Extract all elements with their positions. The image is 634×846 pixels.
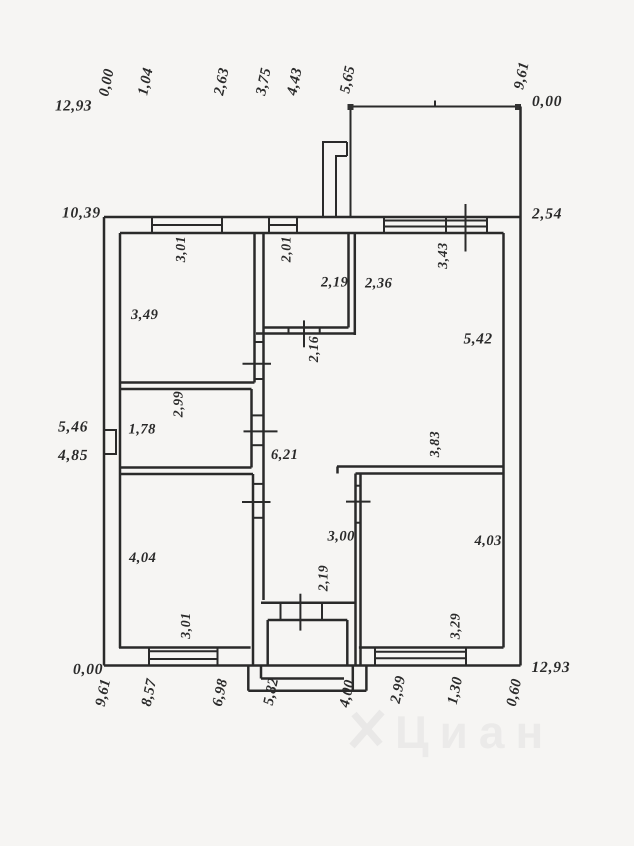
- svg-text:6,21: 6,21: [271, 447, 298, 463]
- window W5 line b: [375, 657, 466, 659]
- svg-text:2,16: 2,16: [306, 336, 321, 364]
- porch step inner line: [261, 677, 344, 680]
- window W4 line a: [149, 650, 218, 652]
- svg-text:2,99: 2,99: [388, 674, 410, 706]
- wall room299 right: [250, 389, 253, 468]
- svg-text:8,57: 8,57: [139, 677, 160, 708]
- window W1 cap right: [221, 217, 223, 233]
- svg-text:9,61: 9,61: [511, 60, 532, 91]
- svg-text:4,85: 4,85: [57, 447, 88, 464]
- wall bottom inner right segment: [359, 646, 504, 649]
- window W5 cap right: [465, 648, 467, 666]
- svg-text:5,42: 5,42: [464, 331, 493, 348]
- svg-text:3,49: 3,49: [130, 307, 158, 323]
- window W2 cap left: [268, 217, 270, 233]
- window W5 cap left: [374, 648, 376, 666]
- svg-text:3,29: 3,29: [448, 613, 463, 641]
- svg-text:2,99: 2,99: [171, 391, 186, 419]
- svg-text:Циан: Циан: [395, 706, 554, 758]
- svg-text:2,63: 2,63: [211, 66, 233, 98]
- tick door D4: [303, 320, 305, 347]
- wall room299 top: [120, 388, 252, 391]
- door entrance cap right: [321, 603, 323, 620]
- door D5 cap bottom: [356, 522, 361, 524]
- door entrance cap left: [280, 603, 282, 620]
- door left wall jamb box: [105, 430, 117, 454]
- tick door D2: [244, 430, 278, 432]
- svg-text:3,83: 3,83: [427, 431, 442, 459]
- svg-text:3,01: 3,01: [173, 236, 188, 264]
- svg-text:0,60: 0,60: [504, 677, 525, 708]
- wall 383 left end: [336, 467, 339, 474]
- wall segment below room404 corner: [252, 647, 255, 666]
- door D3 cap bottom: [253, 517, 264, 519]
- wall main bottom outer: [104, 664, 521, 667]
- wall main right inner: [502, 233, 505, 648]
- window W4 cap right: [217, 648, 219, 666]
- porch step inner left: [260, 666, 263, 679]
- window W3 line a: [384, 220, 487, 222]
- wall bottom inner left segment: [119, 646, 251, 649]
- tick extension top: [434, 101, 436, 108]
- window W3 line b: [384, 226, 487, 228]
- svg-text:2,19: 2,19: [320, 275, 348, 291]
- door D2 cap top: [252, 414, 264, 416]
- wall corridor bottom: [261, 601, 355, 604]
- svg-text:2,36: 2,36: [364, 276, 393, 292]
- wall room349 right: [253, 233, 256, 383]
- svg-text:6,98: 6,98: [210, 677, 231, 708]
- svg-text:3,00: 3,00: [327, 529, 355, 545]
- wall room219 bottom upper: [265, 326, 349, 329]
- porch step outer left: [247, 666, 250, 691]
- door D3 cap top: [253, 483, 264, 485]
- node extension corner marker left: [348, 104, 354, 110]
- wall room299 bottom: [120, 466, 252, 469]
- svg-text:5,82: 5,82: [261, 676, 282, 707]
- wall room403 left b: [359, 474, 362, 647]
- door D4 cap left: [288, 328, 290, 334]
- wall room404 right: [252, 474, 255, 647]
- watermark cian: [352, 706, 554, 758]
- tick door D1: [243, 363, 272, 365]
- wall main top outer: [104, 216, 521, 219]
- svg-text:0,00: 0,00: [96, 67, 117, 98]
- door D4 cap right: [319, 328, 321, 334]
- wall main right outer: [519, 107, 522, 666]
- wall 383 lower: [356, 472, 504, 475]
- door D1 cap bottom: [255, 378, 264, 380]
- wall corridor left line upper: [262, 233, 265, 600]
- svg-text:4,43: 4,43: [284, 66, 306, 98]
- wall extension top: [351, 106, 520, 108]
- wall main top inner: [120, 232, 504, 235]
- tick dimension top wall: [465, 204, 467, 252]
- door D5 cap top: [356, 485, 361, 487]
- window W4 cap left: [148, 648, 150, 666]
- door D2 cap bottom: [252, 444, 264, 446]
- svg-text:3,43: 3,43: [435, 242, 450, 270]
- wall room219 right inner: [347, 233, 350, 328]
- tick door D3: [242, 501, 271, 503]
- svg-text:12,93: 12,93: [55, 98, 92, 115]
- svg-text:4,04: 4,04: [128, 550, 156, 566]
- wall annex bay outer: [323, 142, 347, 218]
- svg-text:3,01: 3,01: [178, 612, 193, 640]
- wall room219 bottom lower: [256, 332, 355, 335]
- wall porch top: [268, 619, 348, 622]
- svg-text:2,54: 2,54: [531, 206, 562, 223]
- door D1 cap top: [255, 341, 264, 343]
- window W1 mid line: [152, 224, 222, 226]
- porch step outer right: [365, 666, 368, 691]
- wall main left outer: [103, 217, 106, 666]
- svg-text:0,00: 0,00: [532, 93, 562, 110]
- wall extension left: [350, 107, 352, 218]
- svg-text:5,65: 5,65: [337, 64, 358, 95]
- wall annex bay end: [346, 142, 348, 156]
- wall 383 upper: [337, 465, 504, 468]
- svg-text:2,19: 2,19: [316, 565, 331, 593]
- svg-text:5,46: 5,46: [58, 419, 88, 436]
- wall room404 top: [120, 473, 253, 476]
- wall porch right: [346, 620, 349, 666]
- window W3 cap mid: [445, 217, 447, 233]
- svg-text:2,01: 2,01: [279, 236, 294, 264]
- svg-text:1,04: 1,04: [135, 66, 156, 97]
- svg-text:4,03: 4,03: [474, 533, 502, 549]
- tick door entrance: [299, 594, 301, 631]
- svg-text:9,61: 9,61: [93, 677, 114, 708]
- window W2 mid line: [269, 224, 297, 226]
- svg-text:1,30: 1,30: [445, 675, 466, 706]
- porch step inner right: [352, 666, 355, 691]
- svg-text:0,00: 0,00: [73, 661, 103, 678]
- svg-text:10,39: 10,39: [62, 205, 101, 222]
- wall annex bay inner: [336, 156, 347, 218]
- svg-text:1,78: 1,78: [129, 422, 157, 438]
- svg-text:3,75: 3,75: [253, 66, 275, 98]
- wall room403 left a: [354, 474, 357, 647]
- wall segment room403 left b to bottom wall: [359, 647, 362, 666]
- svg-text:12,93: 12,93: [532, 659, 571, 676]
- wall room219 right outer: [354, 233, 357, 335]
- window W4 line b: [149, 658, 218, 660]
- wall main left inner: [119, 233, 122, 648]
- node extension corner marker right: [515, 104, 521, 110]
- wall room349 bottom: [120, 381, 255, 384]
- wall porch left: [266, 620, 269, 666]
- wall segment room403 left to bottom wall: [354, 647, 357, 666]
- svg-text:4,00: 4,00: [337, 678, 359, 710]
- porch step outer bottom: [248, 689, 366, 692]
- window W2 cap right: [296, 217, 298, 233]
- tick door D5: [346, 501, 371, 503]
- window W5 line a: [375, 651, 466, 653]
- window W3 cap left: [383, 217, 385, 233]
- window W3 cap right: [486, 217, 488, 233]
- window W1 top-left cap left: [151, 217, 153, 233]
